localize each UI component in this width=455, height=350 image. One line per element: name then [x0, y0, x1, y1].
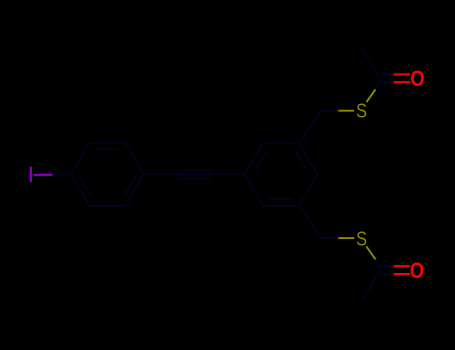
top CH2-S bond navy half [321, 110, 338, 112]
top S-C(=O) bond olive half [366, 89, 375, 102]
oxygen atom O top [410, 68, 424, 92]
bond I-C1 navy half [52, 173, 71, 175]
top CH2-S bond olive half [338, 110, 354, 112]
ring1 inner aromatic line right-bottom [124, 176, 135, 196]
ringC inner aromatic line top-right [295, 150, 307, 170]
top C=O double bond navy halves [380, 73, 394, 75]
oxygen atom O bottom [410, 259, 424, 283]
bottom arm: ring-CH2 bond [299, 206, 321, 238]
bottom acetyl CH3 bond [363, 270, 381, 300]
triple bond lower line [178, 178, 211, 180]
top C=O double bond red halves [394, 73, 411, 75]
bottom C=O double bond red halves [394, 265, 411, 267]
bottom CH2-S bond navy half [321, 237, 338, 239]
bond I-C1 purple half [34, 174, 53, 176]
svg-text:O: O [410, 68, 424, 92]
ringC inner aromatic line top-left [255, 150, 267, 170]
sulfur atom S bottom [356, 227, 367, 250]
benzene ring C (central, 1,3,5-trisubstituted) [245, 143, 317, 206]
top acetyl CH3 bond [363, 49, 381, 79]
benzene ring 1 (iodophenyl) [71, 143, 143, 206]
top S-C(=O) bond navy half [376, 79, 381, 89]
bottom C=O double bond navy halves [380, 265, 394, 267]
sulfur atom S top [356, 99, 367, 122]
ring1 inner aromatic line left-bottom [79, 176, 91, 196]
svg-text:S: S [356, 227, 367, 250]
svg-text:S: S [356, 99, 367, 122]
ring1 inner aromatic line top [96, 148, 119, 150]
bottom S-C(=O) bond olive half [366, 246, 375, 259]
triple bond upper line [178, 169, 211, 171]
iodine atom I [30, 167, 32, 182]
bottom CH2-S bond olive half [338, 237, 354, 239]
ringC inner aromatic line bottom [268, 198, 294, 200]
bottom S-C(=O) bond navy half [376, 259, 381, 269]
svg-text:O: O [410, 259, 424, 283]
alkyne bridge C#C [144, 170, 245, 178]
top arm: ring-CH2 bond [299, 111, 321, 143]
